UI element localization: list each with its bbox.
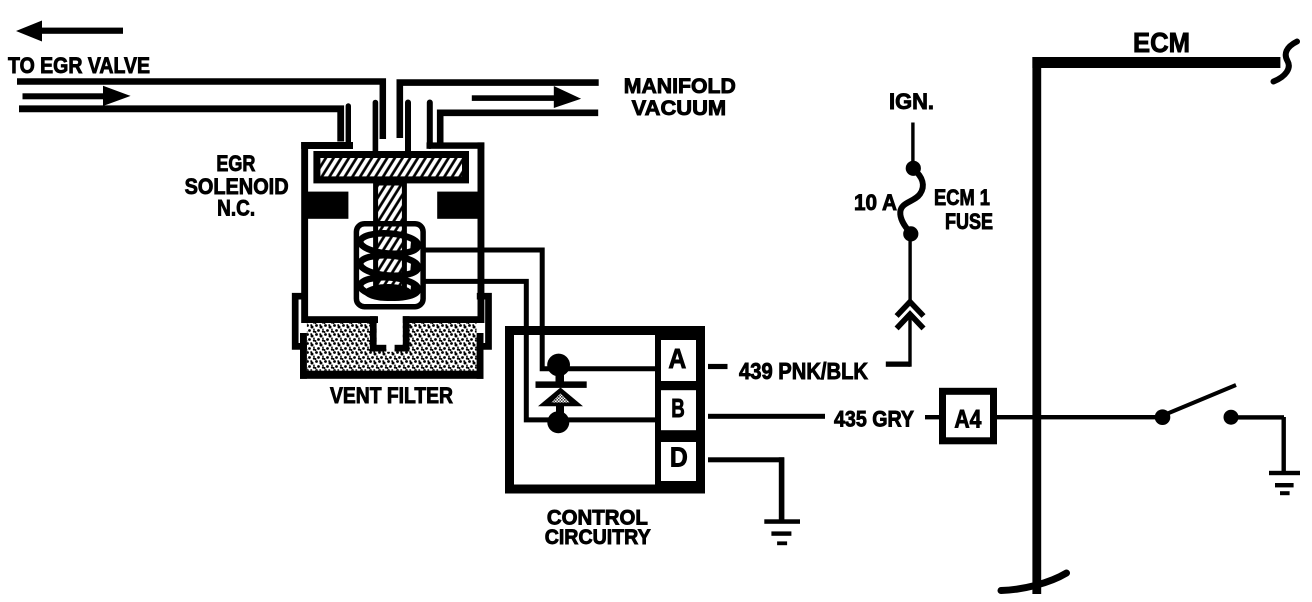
svg-text:MANIFOLD: MANIFOLD: [624, 75, 736, 98]
svg-text:IGN.: IGN.: [889, 89, 934, 114]
fuse bottom terminal: [903, 226, 918, 241]
pin cell B: [658, 387, 700, 433]
solenoid port neck center-right: [405, 103, 411, 154]
ECM boundary vertical: [1032, 57, 1041, 594]
solenoid body right wall: [427, 142, 485, 323]
solenoid port neck right: [427, 103, 433, 147]
svg-text:FUSE: FUSE: [945, 209, 993, 234]
control circuitry box: [510, 331, 701, 490]
armature plate: [317, 155, 466, 180]
svg-text:435 GRY: 435 GRY: [834, 406, 914, 431]
pin A wire stub: [708, 364, 728, 369]
pole piece right: [437, 192, 480, 219]
manifold vacuum pipe bottom wall: [440, 113, 598, 143]
ECM terminal A4 box: [943, 391, 994, 441]
coil lower lead wire: [425, 281, 656, 420]
flow arrow inside left pipe: [23, 86, 131, 106]
svg-text:10 A: 10 A: [854, 190, 897, 215]
coil bobbin: [356, 224, 423, 307]
mounting clip right: [477, 296, 489, 346]
diode stem upper: [556, 372, 565, 383]
fuse top terminal: [906, 161, 921, 176]
ground right: [1269, 471, 1300, 495]
label CONTROL CIRCUITRY: [545, 506, 651, 548]
label ECM 1 FUSE: [934, 185, 993, 234]
pole piece left: [304, 192, 348, 219]
svg-text:A4: A4: [954, 406, 981, 434]
manifold vacuum pipe top wall: [400, 83, 599, 138]
solenoid body left wall: [301, 142, 353, 323]
svg-text:A: A: [668, 343, 686, 374]
pin cell D: [658, 439, 700, 484]
ECM boundary top: [1032, 57, 1280, 68]
flow arrow to EGR valve: [16, 21, 123, 42]
mounting clip left: [295, 296, 307, 346]
wire 439 elbow to fuse: [886, 318, 912, 367]
label MANIFOLD VACUUM: [624, 75, 736, 120]
svg-text:TO EGR VALVE: TO EGR VALVE: [8, 53, 150, 78]
ground pin D: [764, 519, 800, 545]
svg-text:EGR: EGR: [216, 151, 255, 176]
vent filter container: [300, 333, 484, 379]
stem channel: [370, 316, 410, 352]
wire switch to ground: [1238, 415, 1286, 473]
wire fuse to chevrons: [908, 240, 911, 302]
solenoid body bottom edge: [302, 316, 482, 323]
svg-text:B: B: [671, 393, 685, 423]
solenoid port neck center-left: [373, 103, 379, 153]
coil winding: [360, 232, 425, 301]
connector chevrons: [897, 302, 924, 329]
diode node top: [547, 354, 570, 377]
solenoid port neck left: [346, 106, 351, 146]
wire A4 to switch: [997, 415, 1163, 419]
svg-text:D: D: [670, 441, 688, 472]
pin cell A: [658, 337, 700, 384]
diode node bottom: [547, 411, 569, 433]
svg-text:CIRCUITRY: CIRCUITRY: [545, 526, 651, 549]
switch contact left: [1155, 409, 1171, 425]
fuse element: [900, 169, 923, 233]
svg-text:VACUUM: VACUUM: [632, 97, 727, 120]
coil upper lead wire: [423, 250, 656, 369]
flow arrow inside manifold pipe: [472, 86, 581, 108]
svg-text:ECM 1: ECM 1: [934, 185, 990, 210]
vent filter media: [307, 323, 477, 371]
switch lever: [1164, 385, 1236, 415]
svg-text:N.C.: N.C.: [217, 196, 255, 221]
svg-text:439 PNK/BLK: 439 PNK/BLK: [739, 358, 868, 384]
wire from ignition: [911, 123, 914, 163]
diode cathode bar: [536, 381, 587, 388]
svg-text:VENT FILTER: VENT FILTER: [330, 383, 453, 408]
tear mark top right: [1274, 42, 1298, 82]
diode triangle: [538, 388, 583, 416]
wire to A4: [925, 415, 939, 419]
plunger stem: [376, 183, 405, 293]
pipe to EGR valve bottom wall: [19, 109, 341, 142]
pin D wire: [708, 457, 784, 521]
pipe to EGR valve top wall: [17, 82, 383, 140]
svg-text:ECM: ECM: [1133, 27, 1190, 58]
tear mark bottom: [1001, 573, 1067, 591]
pin B wire: [708, 414, 825, 419]
switch contact right: [1224, 410, 1239, 425]
label EGR SOLENOID N.C.: [185, 151, 289, 221]
